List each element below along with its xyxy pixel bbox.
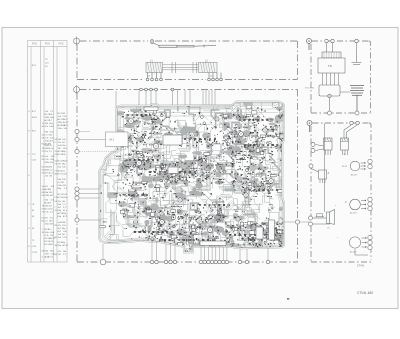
wires PCB bottom to connectors [103, 241, 268, 260]
PCB transistors [129, 117, 274, 233]
node A [74, 37, 80, 46]
svg-text:1M: 1M [50, 235, 53, 237]
svg-text:1M: 1M [49, 166, 52, 168]
svg-text:R101: R101 [32, 117, 38, 119]
top margin traces [130, 104, 280, 123]
wire speaker to chassis [300, 221, 310, 223]
node B [74, 85, 80, 94]
svg-text:100n: 100n [45, 232, 51, 234]
left rail connectors [309, 143, 316, 227]
transformer T1 [318, 43, 345, 85]
svg-text:100n: 100n [62, 174, 68, 176]
driver stage part [311, 168, 330, 183]
wires rail B to PCB [116, 90, 215, 131]
PCB thick trace clumps [123, 102, 285, 250]
ferrite rod antenna [146, 60, 217, 74]
box1 bottom connectors [328, 111, 360, 115]
svg-text:100n: 100n [49, 126, 55, 128]
svg-text:100n: 100n [61, 145, 67, 147]
left frame connector circles [75, 129, 79, 222]
svg-text:TS: TS [328, 64, 332, 68]
svg-text:1M: 1M [58, 148, 61, 150]
choke L3 [340, 86, 364, 111]
transistor TS1 [342, 152, 365, 177]
table header labels [32, 43, 64, 45]
bottom connector nodes [100, 259, 106, 265]
svg-text:1M: 1M [62, 225, 65, 227]
svg-text:POS: POS [45, 43, 50, 45]
svg-text:AC12: AC12 [63, 121, 69, 124]
transistor TS2 [335, 199, 366, 214]
svg-text:AC127: AC127 [351, 174, 358, 177]
top rail connectors [325, 39, 358, 42]
IF can F2 [341, 125, 358, 155]
capacitor C1 [352, 43, 362, 65]
PCB inner edge traces [100, 103, 282, 252]
audio output dashed box [311, 41, 371, 113]
telescopic antenna rod [153, 43, 216, 47]
svg-text:1M: 1M [49, 175, 52, 177]
svg-text:1M: 1M [58, 163, 61, 165]
PCB board base [99, 102, 284, 253]
svg-text:AC12: AC12 [63, 244, 69, 247]
svg-text:POS: POS [32, 43, 37, 45]
upper dashed box [77, 41, 298, 80]
rail connectors [350, 121, 359, 124]
svg-text:AC132: AC132 [350, 251, 357, 254]
page mark [287, 298, 289, 300]
right rail connectors TS3 [368, 235, 372, 249]
rail A dashed [80, 40, 149, 42]
wires left frame to PCB [80, 132, 118, 221]
ferrite coil pins right [208, 73, 223, 81]
svg-text:1M: 1M [58, 254, 61, 256]
svg-text:VOL.REG: VOL.REG [305, 88, 315, 90]
central dashed frame [77, 90, 298, 263]
svg-text:1M: 1M [61, 182, 64, 184]
node D [307, 121, 312, 133]
svg-text:M 1: M 1 [110, 138, 115, 142]
PCB component marks [100, 105, 285, 252]
parts list table [28, 41, 68, 263]
svg-text:AC12: AC12 [48, 255, 54, 258]
svg-text:POS: POS [59, 43, 64, 45]
IF can F1 [316, 138, 333, 155]
svg-text:CTV4L 480: CTV4L 480 [357, 291, 373, 295]
svg-text:CTV4L: CTV4L [357, 265, 365, 268]
module box M [106, 132, 134, 147]
svg-text:B178: B178 [342, 166, 348, 168]
svg-text:100n: 100n [58, 128, 64, 130]
ferrite coil pins left [146, 73, 162, 81]
transistor TS3 [337, 236, 368, 255]
PCB large component outlines [144, 107, 275, 246]
svg-text:100n: 100n [63, 197, 69, 199]
node C (right top) [307, 39, 312, 51]
svg-text:C215: C215 [32, 252, 38, 254]
svg-text:1M: 1M [48, 189, 51, 191]
right rail connectors TS1 [368, 159, 372, 168]
svg-text:1M: 1M [62, 113, 65, 115]
PCB outline [99, 102, 284, 253]
rail B connector circles [140, 88, 174, 91]
svg-text:100n: 100n [45, 253, 51, 255]
table row text (tiny) [28, 59, 69, 258]
antenna connector [150, 39, 154, 44]
volume regulator [305, 85, 340, 111]
PCB copper pour patches [107, 100, 289, 249]
PCB copper traces [100, 97, 288, 251]
right rail connectors TS2 [368, 197, 372, 210]
audio amp dashed box [311, 123, 371, 262]
svg-text:AC128: AC128 [350, 212, 357, 215]
loudspeaker [313, 123, 335, 230]
right frame connector [295, 220, 299, 224]
